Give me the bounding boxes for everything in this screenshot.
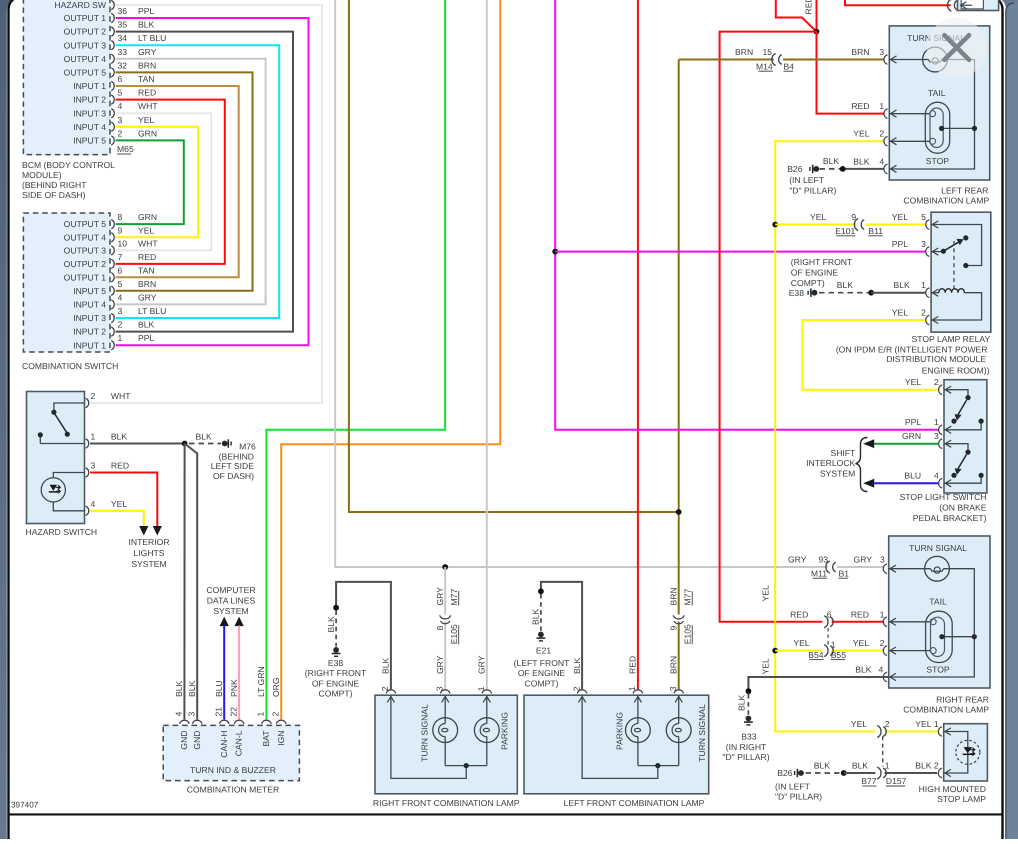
svg-text:1: 1 [921, 280, 926, 290]
svg-text:8: 8 [435, 626, 445, 631]
LEFT FRONT COMBINATION LAMP bulb turn [666, 718, 691, 743]
svg-text:BLK: BLK [823, 156, 840, 166]
svg-text:34: 34 [118, 33, 128, 43]
svg-text:6: 6 [118, 74, 123, 84]
left rear lamp pin 2 [884, 136, 888, 146]
svg-text:BRN: BRN [138, 279, 156, 289]
svg-text:2: 2 [91, 391, 96, 401]
wire BRN from connector B4 down to left front lamp [678, 60, 680, 615]
svg-text:INPUT 1: INPUT 1 [73, 81, 106, 91]
svg-text:GRN: GRN [138, 128, 157, 138]
wire BLK hazard switch pin 1 [90, 443, 185, 445]
svg-text:(IN LEFT: (IN LEFT [789, 175, 825, 185]
svg-text:TAN: TAN [138, 265, 155, 275]
svg-text:SYSTEM: SYSTEM [131, 559, 166, 569]
svg-text:2: 2 [934, 760, 939, 770]
svg-text:32: 32 [118, 60, 128, 70]
left rear turn signal bulb [923, 47, 948, 72]
svg-text:3: 3 [118, 306, 123, 316]
svg-text:HAZARD SWITCH: HAZARD SWITCH [26, 527, 98, 537]
LEFT FRONT COMBINATION LAMP internal wiring [637, 695, 639, 765]
svg-text:YEL: YEL [760, 658, 770, 674]
svg-text:36: 36 [118, 6, 128, 16]
wire GRN BCM pin 2 to switch pin 8 [116, 140, 184, 224]
junction BRN [676, 509, 682, 515]
connector E101 B11 [854, 219, 858, 231]
combination meter pin 2 IGN [276, 720, 286, 724]
svg-text:MODULE): MODULE) [22, 170, 62, 180]
hazard switch pin 3 [86, 468, 89, 477]
svg-text:RIGHT REAR: RIGHT REAR [936, 694, 989, 704]
wire YEL branch to right rear pin 2 via B54 B55 [775, 650, 822, 652]
svg-text:9: 9 [851, 212, 856, 222]
svg-text:YEL: YEL [810, 212, 826, 222]
wire LT BLU BCM pin 34 to switch pin 3 [116, 45, 280, 318]
junction RED [814, 29, 820, 35]
svg-text:B26: B26 [777, 768, 793, 778]
svg-text:3: 3 [880, 554, 885, 564]
svg-text:"D" PILLAR): "D" PILLAR) [722, 752, 769, 762]
svg-text:B26: B26 [787, 164, 803, 174]
svg-text:(RIGHT FRONT: (RIGHT FRONT [305, 668, 367, 678]
svg-text:1: 1 [934, 417, 939, 427]
right rear lamp pin 1 [883, 617, 887, 627]
svg-text:2: 2 [885, 719, 890, 729]
svg-text:21: 21 [213, 707, 223, 717]
svg-text:COMPT): COMPT) [319, 689, 353, 699]
svg-text:INTERLOCK: INTERLOCK [806, 458, 855, 468]
svg-text:2: 2 [934, 377, 939, 387]
svg-text:BLU: BLU [904, 471, 921, 481]
svg-text:3: 3 [118, 115, 123, 125]
svg-text:1: 1 [256, 712, 266, 717]
STOP LAMP RELAY block [931, 212, 991, 332]
svg-text:COMBINATION LAMP: COMBINATION LAMP [903, 196, 989, 206]
LEFT FRONT COMBINATION LAMP bulb parking [626, 718, 651, 743]
svg-text:OUTPUT 2: OUTPUT 2 [64, 259, 107, 269]
svg-text:INPUT 4: INPUT 4 [73, 300, 106, 310]
svg-text:PPL: PPL [892, 239, 908, 249]
wire GRY right turn circuit from top [335, 0, 828, 567]
svg-text:OUTPUT 2: OUTPUT 2 [64, 27, 107, 37]
svg-text:1: 1 [885, 760, 890, 770]
wire BLK GND branch 1 [183, 444, 185, 720]
svg-text:WHT: WHT [111, 391, 131, 401]
svg-text:(IN RIGHT: (IN RIGHT [726, 742, 767, 752]
svg-text:RED: RED [790, 609, 808, 619]
svg-text:2: 2 [118, 128, 123, 138]
left rear tail/stop bulb [925, 102, 949, 153]
svg-text:YEL: YEL [138, 225, 154, 235]
svg-text:RIGHT FRONT COMBINATION LAMP: RIGHT FRONT COMBINATION LAMP [373, 798, 520, 808]
svg-text:WHT: WHT [138, 238, 158, 248]
svg-text:TAIL: TAIL [929, 596, 947, 606]
svg-text:BLK: BLK [138, 320, 155, 330]
svg-text:ORG: ORG [271, 677, 281, 697]
connector E105 M77 on BRN [673, 615, 684, 619]
svg-text:E101: E101 [835, 226, 855, 236]
wire PNK CAN-L [238, 626, 240, 720]
svg-text:2: 2 [270, 712, 280, 717]
svg-text:HIGH MOUNTED: HIGH MOUNTED [919, 784, 986, 794]
LEFT FRONT COMBINATION LAMP block [524, 695, 709, 794]
hazard switch indicator lamp [53, 473, 84, 511]
svg-text:BRN: BRN [669, 587, 679, 605]
wire YEL BCM pin 3 to switch pin 9 [116, 127, 199, 238]
svg-text:STOP LAMP RELAY: STOP LAMP RELAY [912, 334, 991, 344]
relay internal switch [931, 225, 982, 266]
right rear stop junction [942, 636, 974, 638]
svg-text:BAT: BAT [261, 730, 271, 747]
right rear turn signal bulb [925, 556, 950, 581]
high mounted pin 1 [938, 727, 942, 737]
combination meter pin 21 CAN-H [219, 720, 229, 724]
svg-text:5: 5 [921, 212, 926, 222]
svg-text:E105: E105 [682, 624, 692, 644]
svg-text:YEL: YEL [793, 638, 809, 648]
svg-text:E21: E21 [536, 645, 552, 655]
wire RED to left rear stop pin 1 [817, 32, 884, 114]
svg-text:COMPT): COMPT) [791, 278, 825, 288]
wire YEL hazard switch pin 4 to interior lights [90, 511, 144, 526]
close button [927, 18, 987, 78]
wire YEL branch to relay pin 5 via E101 B11 [775, 224, 856, 226]
svg-text:1: 1 [476, 686, 486, 691]
svg-text:PARKING: PARKING [499, 712, 509, 750]
stop lamp relay pin 5 [926, 220, 930, 230]
svg-text:4: 4 [118, 292, 123, 302]
svg-text:2: 2 [879, 129, 884, 139]
svg-text:BLK: BLK [837, 280, 854, 290]
svg-text:4: 4 [174, 712, 184, 717]
STOP LIGHT SWITCH block [944, 380, 987, 493]
svg-text:B55: B55 [831, 650, 847, 660]
svg-text:COMBINATION METER: COMBINATION METER [187, 784, 279, 794]
svg-text:M76: M76 [239, 441, 256, 451]
LEFT FRONT COMBINATION LAMP pin 2 [577, 690, 587, 694]
ground M76 dashed lead [189, 443, 221, 445]
svg-text:OUTPUT 4: OUTPUT 4 [64, 232, 107, 242]
LEFT FRONT COMBINATION LAMP pin 3 [674, 690, 684, 694]
wire TAN BCM pin 6 to switch pin 6 [116, 86, 239, 277]
connector B54 B55 [824, 645, 828, 657]
connector E105 M77 on GRY [440, 615, 451, 619]
svg-text:5: 5 [118, 279, 123, 289]
svg-text:BLK: BLK [853, 156, 870, 166]
svg-text:LEFT FRONT COMBINATION LAMP: LEFT FRONT COMBINATION LAMP [564, 798, 705, 808]
svg-text:M65: M65 [117, 144, 134, 154]
connector M14 B4 [772, 54, 776, 66]
connector D157 dashed link [882, 736, 884, 766]
svg-text:33: 33 [118, 47, 128, 57]
wire YEL main stop circuit [775, 141, 883, 731]
junction hazard BLK [182, 441, 188, 447]
junction YEL at B54 [772, 648, 778, 654]
svg-text:OUTPUT 4: OUTPUT 4 [64, 54, 107, 64]
svg-text:4: 4 [118, 101, 123, 111]
svg-text:M14: M14 [756, 61, 773, 71]
wire RED BCM pin 5 to switch pin 7 [116, 100, 225, 264]
svg-text:M77: M77 [449, 589, 459, 606]
combination meter pin 1 BAT [262, 720, 272, 724]
svg-text:RED: RED [851, 609, 869, 619]
combination meter pin 3 GND [192, 720, 202, 724]
svg-text:INTERIOR: INTERIOR [128, 537, 169, 547]
svg-text:SIDE OF DASH): SIDE OF DASH) [22, 190, 86, 200]
svg-text:YEL: YEL [853, 638, 869, 648]
wire WHT hazard switch pin 2 to BCM HAZARD SW [90, 5, 322, 403]
svg-text:OF DASH): OF DASH) [213, 471, 254, 481]
wire BLU CAN-H [223, 626, 225, 720]
svg-text:INPUT 3: INPUT 3 [73, 108, 106, 118]
svg-text:CAN-H: CAN-H [219, 731, 229, 758]
svg-text:6: 6 [827, 609, 832, 619]
svg-text:INPUT 4: INPUT 4 [73, 122, 106, 132]
wire LT GRN BAT from top [266, 0, 445, 719]
svg-text:YEL: YEL [915, 719, 931, 729]
svg-text:LT BLU: LT BLU [138, 33, 166, 43]
svg-text:SHIFT: SHIFT [830, 448, 856, 458]
wire YEL relay pin 2 to stop light switch pin 2 [803, 320, 939, 390]
wire GRY drop to right front turn signal [444, 567, 446, 615]
svg-text:B11: B11 [868, 226, 883, 236]
svg-text:35: 35 [118, 20, 128, 30]
svg-text:STOP: STOP [926, 665, 950, 675]
ground E21 left front [541, 582, 582, 689]
junction PPL [552, 249, 558, 255]
svg-text:1: 1 [879, 101, 884, 111]
svg-text:BRN: BRN [851, 47, 869, 57]
svg-text:6: 6 [118, 265, 123, 275]
svg-text:2: 2 [880, 638, 885, 648]
stop light switch pin 2 [939, 385, 943, 395]
wire BRN left turn circuit from top [349, 0, 679, 512]
left rear internal wiring [889, 60, 974, 170]
stop lamp relay pin 1 [926, 288, 930, 298]
svg-text:3: 3 [186, 712, 196, 717]
wire BRN BCM pin 32 to switch pin 5 [116, 72, 253, 290]
svg-text:8: 8 [118, 212, 123, 222]
svg-text:YEL: YEL [851, 719, 867, 729]
combination meter pin 22 CAN-L [234, 720, 244, 724]
svg-text:COMBINATION LAMP: COMBINATION LAMP [903, 704, 989, 714]
wire RED to right rear stop pin 1 [720, 32, 823, 622]
LEFT FRONT COMBINATION LAMP pin 1 [633, 690, 643, 694]
svg-text:BLU: BLU [214, 680, 224, 697]
RIGHT FRONT COMBINATION LAMP bulb parking [474, 718, 499, 743]
svg-text:INPUT 1: INPUT 1 [73, 340, 106, 350]
right rear tail/stop bulb [926, 611, 953, 662]
svg-text:RED: RED [111, 461, 129, 471]
svg-text:2: 2 [380, 686, 390, 691]
svg-text:LEFT REAR: LEFT REAR [941, 186, 988, 196]
svg-text:BRN: BRN [669, 656, 679, 674]
svg-text:RED: RED [628, 656, 638, 674]
svg-text:GRY: GRY [854, 554, 873, 564]
svg-text:1: 1 [831, 640, 836, 650]
svg-text:1: 1 [934, 719, 939, 729]
svg-text:M77: M77 [682, 589, 692, 606]
svg-text:BLK: BLK [572, 657, 582, 674]
svg-text:B1: B1 [839, 568, 850, 578]
svg-text:2: 2 [571, 686, 581, 691]
top right cut-off lamp block [958, 0, 999, 11]
svg-text:(IN LEFT: (IN LEFT [775, 782, 811, 792]
junction GRY [442, 564, 448, 570]
svg-text:DISTRIBUTION MODULE: DISTRIBUTION MODULE [886, 354, 986, 364]
svg-text:E38: E38 [789, 288, 805, 298]
combination meter pin 4 GND [180, 720, 190, 724]
svg-text:BLK: BLK [531, 608, 541, 625]
wire GRY parking right front from top [486, 0, 488, 689]
svg-text:INPUT 3: INPUT 3 [73, 313, 106, 323]
svg-text:TAIL: TAIL [928, 88, 946, 98]
right page strip [1006, 0, 1018, 839]
svg-text:RED: RED [138, 88, 156, 98]
svg-text:BLK: BLK [855, 664, 872, 674]
right rear lamp pin 2 [883, 646, 887, 656]
svg-text:STOP LAMP: STOP LAMP [937, 794, 986, 804]
svg-text:B33: B33 [741, 732, 757, 742]
svg-text:BLK: BLK [195, 432, 212, 442]
svg-text:4: 4 [934, 471, 939, 481]
svg-text:GRN: GRN [902, 431, 921, 441]
RIGHT FRONT COMBINATION LAMP internal wiring [444, 695, 446, 765]
wire BRN connector M14 B4 row [679, 59, 774, 61]
left rear stop junction [942, 127, 975, 129]
svg-text:9: 9 [669, 626, 679, 631]
svg-text:GRY: GRY [435, 655, 445, 674]
svg-text:COMPT): COMPT) [525, 678, 559, 688]
hazard switch pin 2 [86, 398, 89, 407]
svg-text:7: 7 [118, 252, 123, 262]
svg-text:OF ENGINE: OF ENGINE [518, 668, 566, 678]
arrow interior lights RED [153, 526, 162, 536]
right rear lamp pin 4 [883, 672, 887, 682]
svg-text:YEL: YEL [892, 307, 908, 317]
svg-text:GRY: GRY [138, 292, 157, 302]
svg-text:YEL: YEL [760, 585, 770, 601]
BCM block (dashed) [23, 0, 110, 155]
svg-text:(RIGHT FRONT: (RIGHT FRONT [791, 257, 853, 267]
svg-text:D157: D157 [886, 776, 907, 786]
RIGHT FRONT COMBINATION LAMP block [375, 695, 517, 794]
svg-text:B54: B54 [808, 650, 824, 660]
svg-text:397407: 397407 [11, 801, 39, 810]
svg-text:RED: RED [803, 0, 813, 15]
high mounted LED [956, 740, 980, 764]
svg-text:BLK: BLK [326, 616, 336, 633]
wire BLK BCM pin 35 to switch pin 2 [116, 32, 293, 332]
right rear BLK pin row [748, 677, 888, 690]
right rear internal wiring [889, 569, 975, 677]
svg-text:15: 15 [762, 47, 772, 57]
svg-text:1: 1 [627, 686, 637, 691]
svg-text:INPUT 5: INPUT 5 [73, 136, 106, 146]
svg-text:B4: B4 [784, 61, 795, 71]
svg-text:COMPUTER: COMPUTER [206, 585, 255, 595]
svg-text:BLK: BLK [187, 680, 197, 697]
svg-text:3: 3 [434, 686, 444, 691]
svg-text:BLK: BLK [736, 694, 746, 711]
svg-text:1: 1 [91, 432, 96, 442]
wire RED parking left front from top [637, 0, 639, 689]
stop light switch upper contacts [944, 390, 981, 430]
shift interlock brace [856, 438, 868, 492]
svg-text:HAZARD SW: HAZARD SW [54, 0, 106, 10]
svg-text:PPL: PPL [138, 333, 154, 343]
svg-text:INPUT 2: INPUT 2 [73, 327, 106, 337]
wire PPL BCM pin 36 to switch pin 1 [116, 18, 309, 345]
svg-text:(LEFT FRONT: (LEFT FRONT [514, 658, 570, 668]
high mounted internal wiring [944, 732, 968, 774]
svg-text:PNK: PNK [229, 679, 239, 697]
stop light switch lower contacts [944, 444, 981, 484]
svg-text:BLK: BLK [111, 432, 128, 442]
svg-text:4: 4 [879, 664, 884, 674]
relay dashed link [953, 241, 955, 289]
junction YEL at relay branch [772, 222, 778, 228]
svg-text:OUTPUT 1: OUTPUT 1 [64, 272, 107, 282]
svg-text:10: 10 [118, 238, 128, 248]
RIGHT FRONT COMBINATION LAMP pin 3 [440, 690, 450, 694]
svg-text:OUTPUT 3: OUTPUT 3 [64, 40, 107, 50]
svg-text:YEL: YEL [905, 377, 921, 387]
svg-text:3: 3 [934, 431, 939, 441]
svg-text:E105: E105 [449, 624, 459, 644]
svg-text:OF ENGINE: OF ENGINE [312, 678, 360, 688]
hazard switch pin 4 [86, 506, 89, 515]
svg-text:BLK: BLK [915, 760, 932, 770]
svg-text:OUTPUT 1: OUTPUT 1 [64, 13, 107, 23]
svg-text:BLK: BLK [894, 280, 911, 290]
RIGHT FRONT COMBINATION LAMP bulb turn [433, 718, 458, 743]
wire ORG IGN from top [281, 0, 500, 719]
svg-text:PARKING: PARKING [615, 712, 625, 750]
wire GRY BCM pin 33 to switch pin 4 [116, 59, 266, 305]
wire RED from top with label [816, 0, 818, 32]
svg-text:2: 2 [921, 307, 926, 317]
stop light switch pin 4 [939, 478, 943, 488]
svg-text:B77: B77 [861, 776, 877, 786]
left rear lamp pin 3 [884, 55, 888, 65]
svg-text:ENGINE ROOM)): ENGINE ROOM)) [922, 366, 990, 376]
svg-text:3: 3 [91, 461, 96, 471]
svg-text:GRY: GRY [477, 655, 487, 674]
svg-text:3: 3 [921, 239, 926, 249]
RIGHT REAR COMBINATION LAMP block [889, 536, 990, 688]
LEFT REAR COMBINATION LAMP block [889, 26, 989, 180]
svg-text:M11: M11 [811, 568, 827, 578]
svg-text:LEFT SIDE: LEFT SIDE [211, 461, 255, 471]
svg-text:(ON BRAKE: (ON BRAKE [939, 503, 987, 513]
svg-text:LIGHTS: LIGHTS [133, 548, 164, 558]
svg-text:BLK: BLK [814, 760, 831, 770]
svg-text:E38: E38 [328, 658, 344, 668]
arrow CAN-L up [235, 617, 244, 627]
svg-text:5: 5 [118, 88, 123, 98]
right rear lamp pin 3 [883, 564, 887, 574]
svg-text:STOP: STOP [926, 156, 950, 166]
svg-text:OUTPUT 3: OUTPUT 3 [64, 246, 107, 256]
svg-text:GRY: GRY [788, 554, 807, 564]
svg-text:TURN SIGNAL: TURN SIGNAL [697, 704, 707, 762]
wire PPL stop lamp circuit from top [555, 0, 939, 430]
connector M11 B1 [826, 561, 830, 573]
svg-text:(BEHIND: (BEHIND [219, 451, 254, 461]
svg-text:2: 2 [118, 320, 123, 330]
hazard switch pin 1 [86, 439, 89, 448]
